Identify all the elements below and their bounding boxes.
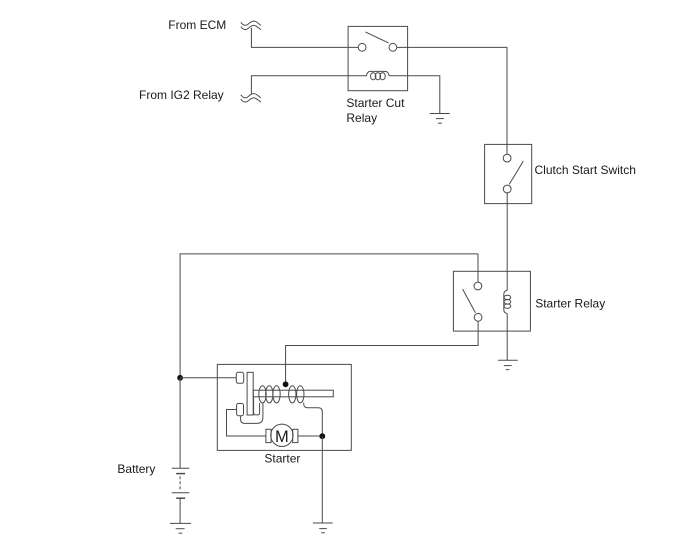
wire: clutch start switch to starter relay coil <box>506 193 508 290</box>
svg-text:Starter Cut: Starter Cut <box>346 96 405 110</box>
break symbol (From IG2 Relay) <box>241 94 261 103</box>
relay K1 Starter Relay box <box>453 271 530 331</box>
svg-text:Starter Relay: Starter Relay <box>535 297 605 311</box>
wire: IG2 lead to starter cut relay coil <box>251 76 366 94</box>
switch S1 Clutch Start Switch box <box>485 144 532 203</box>
wire: battery node to starter terminal <box>180 377 236 379</box>
switch blade (starter cut relay) <box>365 32 388 43</box>
svg-text:From IG2 Relay: From IG2 Relay <box>139 88 224 102</box>
contact plate (starter solenoid contact bar) <box>247 372 253 415</box>
switch blade (clutch start switch) <box>509 161 523 184</box>
svg-text:Starter: Starter <box>264 452 300 466</box>
svg-text:M: M <box>275 428 289 446</box>
starter M1 Starter box <box>217 364 351 450</box>
relay U1 Starter Cut Relay box <box>348 26 408 90</box>
terminal (starter battery terminal) <box>236 372 243 383</box>
coil L3 (starter solenoid winding) <box>259 386 304 403</box>
wire: starter cut relay coil to ground <box>389 76 439 114</box>
wire: starter relay switch to starter solenoid <box>286 321 479 384</box>
ground (starter cut relay) <box>430 114 450 124</box>
terminal (starter switch terminal) <box>237 403 244 415</box>
wire: battery top lead <box>179 378 181 468</box>
wire: ECM lead to starter cut relay switch <box>251 28 358 48</box>
break symbol (From ECM) <box>241 21 261 30</box>
wire: motor node to ground <box>321 436 323 523</box>
coil L1 (starter cut relay coil) <box>366 71 389 79</box>
svg-text:From ECM: From ECM <box>168 18 226 32</box>
wire: battery feed run (starter relay switch to battery node) <box>180 254 478 378</box>
switch contact circle (starter cut relay left) <box>358 43 366 51</box>
plunger bar (starter solenoid plunger) <box>253 390 333 397</box>
battery B1 <box>172 468 190 498</box>
switch blade (starter relay) <box>463 289 476 313</box>
svg-text:Battery: Battery <box>117 462 155 476</box>
node junction (motor ground node) <box>319 433 325 439</box>
coil L2 (starter relay coil) <box>504 290 511 314</box>
svg-text:Clutch Start Switch: Clutch Start Switch <box>535 163 636 177</box>
wire: battery negative to ground <box>179 498 181 523</box>
ground (starter relay) <box>498 360 518 369</box>
switch contact circle (starter relay bottom) <box>474 313 482 321</box>
motor M (starter motor) <box>266 424 298 446</box>
switch contact circle (starter relay top) <box>474 282 482 290</box>
wire: solenoid winding to switch terminal <box>241 403 263 424</box>
switch contact circle (starter cut relay right) <box>389 43 397 51</box>
wire: starter cut relay switch to clutch start switch <box>397 47 507 154</box>
wire: motor to motor node <box>298 435 322 437</box>
plunger link U channel <box>254 397 260 415</box>
ground (starter motor) <box>313 523 333 533</box>
wire: starter relay switch top lead <box>477 254 479 282</box>
wire: starter relay coil to ground <box>506 314 508 361</box>
svg-text:Relay: Relay <box>346 111 377 125</box>
node junction (solenoid coil node) <box>283 381 289 387</box>
ground (battery) <box>170 523 191 533</box>
switch contact circle (clutch bottom) <box>503 185 511 193</box>
switch contact circle (clutch top) <box>503 154 511 162</box>
wire: solenoid winding to motor node <box>304 403 323 437</box>
wire: switch terminal to motor <box>227 410 266 437</box>
node junction (battery node) <box>177 375 183 381</box>
